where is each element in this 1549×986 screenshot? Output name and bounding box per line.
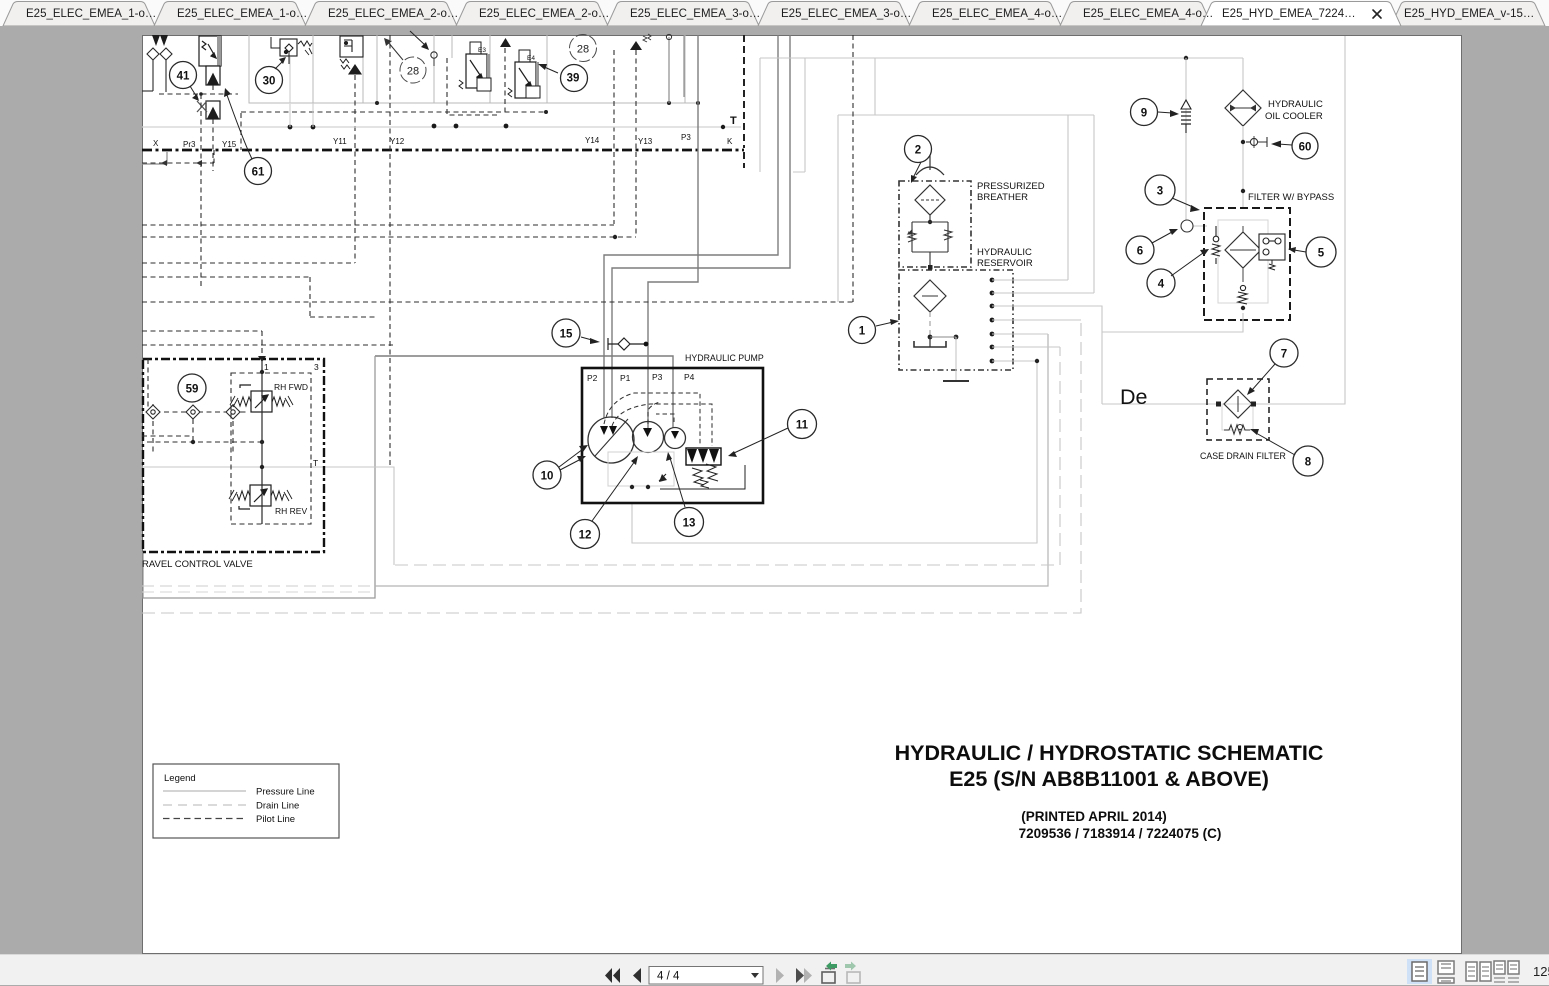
solenoid valve E3	[459, 42, 491, 91]
callout 28b	[570, 35, 597, 62]
filter drain spring	[1238, 285, 1247, 304]
svg-text:Y15: Y15	[222, 140, 237, 149]
callout 9	[1131, 99, 1158, 126]
svg-text:9: 9	[1141, 108, 1147, 120]
inline check valve (9)	[1186, 58, 1207, 226]
inner case rectangle	[608, 452, 674, 486]
svg-text:13: 13	[683, 518, 696, 530]
bypass check valve (4)	[1212, 226, 1220, 264]
last page button	[796, 968, 812, 983]
callout 61	[245, 158, 272, 185]
pipe P3 supply	[648, 35, 698, 430]
valve V3 with spring and output triangle	[340, 36, 363, 74]
case drain filter diamond	[1224, 390, 1252, 418]
svg-text:RAVEL CONTROL VALVE: RAVEL CONTROL VALVE	[142, 559, 253, 570]
pipe P2 supply	[604, 35, 778, 418]
svg-text:3: 3	[1157, 186, 1163, 198]
gear pump 3 (pilot)	[665, 428, 686, 449]
svg-text:1: 1	[264, 362, 269, 372]
dashed pilot verticals from valves	[201, 48, 636, 289]
svg-text:BREATHER: BREATHER	[977, 192, 1028, 203]
restrictor X symbol	[197, 101, 207, 112]
facing pages icon	[1466, 962, 1491, 981]
main piston pump (variable)	[588, 417, 634, 463]
svg-text:P3: P3	[681, 133, 691, 142]
svg-text:Pr3: Pr3	[183, 140, 196, 149]
drain to ground	[955, 337, 957, 381]
single page layout icon (active)	[1407, 959, 1432, 984]
case drain bypass spring	[1224, 425, 1250, 434]
svg-text:HYDRAULIC: HYDRAULIC	[977, 247, 1032, 258]
svg-text:3: 3	[314, 362, 319, 372]
RH REV relief	[229, 485, 292, 509]
callout 30	[256, 67, 283, 94]
dashed pilot horizontals upper	[159, 58, 547, 115]
svg-text:39: 39	[567, 73, 580, 85]
port labels above bus	[153, 133, 733, 149]
pilot valve V1 with spring (component 41 target)	[199, 36, 221, 119]
check valve (15)	[552, 319, 580, 347]
svg-text:60: 60	[1299, 142, 1312, 154]
callout 7	[1270, 339, 1298, 367]
svg-text:Pilot Line: Pilot Line	[256, 814, 295, 825]
triangle on line x506	[500, 38, 511, 47]
gear pump 2	[633, 422, 664, 453]
callout 41	[170, 62, 197, 89]
check diamonds below arrows	[142, 48, 172, 92]
svg-text:P3: P3	[652, 372, 663, 382]
svg-text:RH REV: RH REV	[275, 506, 307, 516]
shuttle valves row	[142, 359, 262, 452]
cooler bypass orifice (60)	[1241, 140, 1245, 144]
callout 60	[1292, 133, 1318, 159]
callout 8	[1293, 446, 1323, 476]
main pilot bus (thick dash-dot)	[142, 149, 744, 152]
tank symbol	[929, 337, 931, 347]
callout 4	[1147, 269, 1175, 297]
svg-text:HYDRAULIC: HYDRAULIC	[1268, 99, 1323, 110]
callout 3	[1145, 175, 1175, 205]
top solid verticals	[669, 35, 684, 103]
page number box	[649, 967, 763, 985]
relief springs	[659, 464, 745, 489]
dots column	[990, 278, 995, 364]
svg-text:11: 11	[796, 420, 809, 432]
svg-text:12: 12	[579, 530, 592, 542]
svg-text:P2: P2	[587, 373, 598, 383]
RH FWD relief	[230, 385, 293, 412]
callout 39	[561, 65, 588, 92]
solenoid pilot arrows top-left	[152, 35, 168, 46]
svg-text:7209536 / 7183914 / 7224075 (C: 7209536 / 7183914 / 7224075 (C)	[1019, 826, 1222, 841]
floating arrow into port circle	[410, 31, 426, 46]
dots on block bottom	[375, 101, 379, 105]
svg-text:T: T	[730, 115, 737, 127]
svg-text:PRESSURIZED: PRESSURIZED	[977, 181, 1045, 192]
callout 1	[849, 317, 876, 344]
pipe P4 branch	[375, 356, 673, 428]
bypass indicator switch (5)	[1259, 234, 1285, 270]
wire: left pipe exits page	[142, 152, 167, 164]
callout 28a (open circle)	[400, 57, 426, 83]
svg-text:P1: P1	[620, 373, 631, 383]
relief valve bank	[686, 448, 721, 465]
callout 10	[533, 461, 561, 489]
thin gray collector line	[142, 126, 741, 128]
svg-text:E3: E3	[478, 47, 486, 54]
svg-text:HYDRAULIC / HYDROSTATIC SCHEMA: HYDRAULIC / HYDROSTATIC SCHEMATIC	[895, 741, 1324, 765]
facing continuous icon	[1494, 961, 1519, 974]
arrow ticks on dashed drain line	[161, 160, 202, 166]
svg-text:10: 10	[541, 471, 554, 483]
T/K dashed riser	[743, 35, 745, 168]
svg-text:RESERVOIR: RESERVOIR	[977, 258, 1033, 269]
svg-text:Y13: Y13	[638, 137, 653, 146]
valve block outline (cut off at top)	[249, 35, 698, 103]
spool center line	[261, 359, 263, 524]
svg-text:59: 59	[186, 384, 199, 396]
callout 11	[788, 410, 817, 439]
dot feed lines	[992, 280, 1102, 404]
svg-text:Pressure Line: Pressure Line	[256, 787, 315, 798]
svg-text:4: 4	[1158, 279, 1165, 291]
svg-text:HYDRAULIC PUMP: HYDRAULIC PUMP	[685, 353, 764, 363]
callout 5	[1306, 237, 1336, 267]
svg-text:Legend: Legend	[164, 773, 196, 784]
browser tab bar	[0, 0, 1549, 26]
svg-text:E25 (S/N AB8B11001 & ABOVE): E25 (S/N AB8B11001 & ABOVE)	[949, 767, 1269, 791]
svg-text:FILTER W/ BYPASS: FILTER W/ BYPASS	[1248, 192, 1334, 203]
svg-text:OIL COOLER: OIL COOLER	[1265, 111, 1323, 122]
first page button	[605, 968, 620, 983]
breather filter diamond	[915, 185, 945, 215]
svg-text:Drain Line: Drain Line	[256, 801, 299, 812]
suction strainer diamond	[914, 280, 946, 312]
svg-text:RH FWD: RH FWD	[274, 382, 308, 392]
svg-text:2: 2	[915, 145, 921, 157]
gauge port circle (6)	[1181, 220, 1193, 232]
breather cap arc	[916, 167, 944, 175]
callout 2	[905, 136, 932, 163]
continuous layout icon	[1438, 961, 1454, 983]
next page button (disabled)	[776, 968, 784, 983]
svg-text:De: De	[1120, 385, 1147, 409]
solenoid valve E4	[508, 50, 540, 98]
valve 30: pressure reducing valve	[271, 37, 312, 64]
svg-text:41: 41	[177, 71, 190, 83]
callout 59	[178, 374, 206, 402]
svg-text:8: 8	[1305, 457, 1312, 469]
svg-text:T: T	[313, 458, 318, 468]
svg-text:K: K	[727, 137, 733, 146]
filter element diamond	[1225, 232, 1261, 268]
svg-text:6: 6	[1137, 246, 1143, 258]
svg-text:30: 30	[263, 76, 276, 88]
svg-text:P4: P4	[684, 372, 695, 382]
svg-text:5: 5	[1318, 248, 1325, 260]
svg-text:X: X	[153, 139, 159, 148]
previous page button	[633, 968, 641, 983]
pipe P1 supply	[612, 35, 790, 418]
callout 13	[675, 508, 704, 537]
svg-text:15: 15	[560, 329, 573, 341]
breather check loop	[908, 222, 952, 252]
callout 12	[571, 520, 600, 549]
pump box	[582, 368, 763, 503]
svg-text:(PRINTED APRIL 2014): (PRINTED APRIL 2014)	[1021, 809, 1167, 824]
svg-text:Y11: Y11	[333, 137, 347, 146]
callout 6	[1126, 236, 1154, 264]
svg-text:61: 61	[252, 167, 265, 179]
triangle + squiggle at x636	[630, 41, 642, 50]
pilot dashed lines inside pump	[604, 393, 712, 446]
bottom toolbar	[0, 954, 1549, 985]
svg-text:E4: E4	[527, 55, 535, 62]
svg-text:Y14: Y14	[585, 136, 600, 145]
svg-text:Y12: Y12	[390, 137, 405, 146]
previous view icon	[822, 969, 835, 984]
white schematic page	[142, 35, 1462, 954]
svg-text:1: 1	[859, 326, 866, 338]
next view icon (disabled)	[847, 972, 860, 983]
svg-text:28: 28	[577, 44, 589, 56]
inner dashed box	[231, 373, 311, 524]
svg-text:CASE DRAIN FILTER: CASE DRAIN FILTER	[1200, 451, 1286, 461]
svg-text:28: 28	[407, 66, 419, 78]
svg-text:7: 7	[1281, 349, 1287, 361]
